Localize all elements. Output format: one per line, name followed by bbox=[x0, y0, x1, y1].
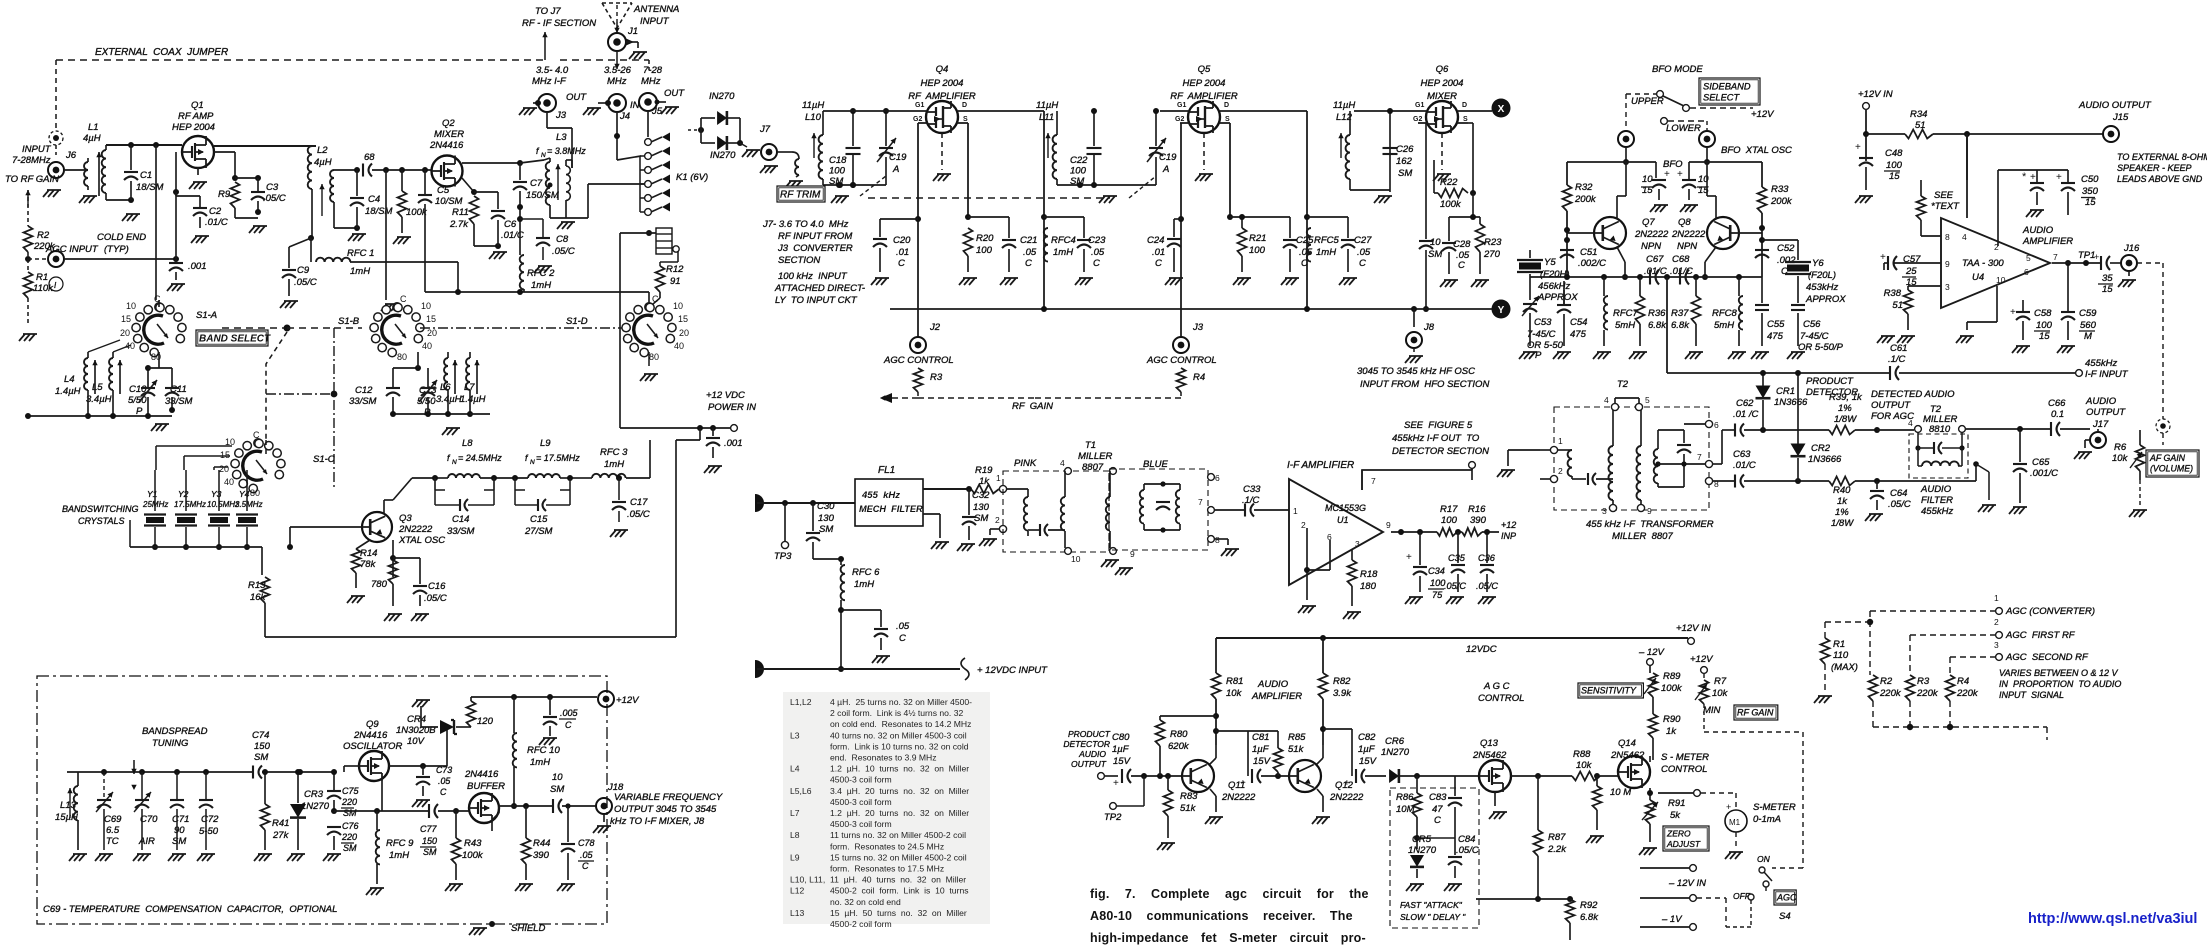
svg-text:1µF: 1µF bbox=[1358, 744, 1376, 755]
svg-text:3: 3 bbox=[1602, 506, 1607, 516]
svg-text:C: C bbox=[565, 720, 572, 730]
svg-text:15: 15 bbox=[678, 314, 688, 324]
svg-text:S: S bbox=[1225, 116, 1230, 123]
svg-text:620k: 620k bbox=[1168, 741, 1190, 752]
svg-text:AGC CONTROL: AGC CONTROL bbox=[883, 355, 954, 366]
svg-text:I-F INPUT: I-F INPUT bbox=[2085, 369, 2129, 380]
svg-text:8810: 8810 bbox=[1929, 424, 1951, 435]
pin7 up to product detector row1 bbox=[1713, 463, 1722, 465]
svg-text:10k: 10k bbox=[1576, 760, 1593, 771]
svg-text:+: + bbox=[1240, 778, 1246, 789]
svg-text:SEE: SEE bbox=[1934, 190, 1954, 201]
svg-text:R92: R92 bbox=[1580, 900, 1598, 911]
dashed gang line bbox=[860, 176, 886, 196]
svg-text:Y: Y bbox=[1498, 305, 1505, 316]
svg-text:.001: .001 bbox=[188, 261, 207, 272]
svg-text:4500-3 coil form: 4500-3 coil form bbox=[830, 797, 892, 807]
svg-text:4500-3 coil form: 4500-3 coil form bbox=[830, 819, 892, 829]
pin 8 wire bbox=[1921, 235, 1941, 237]
secondary pair bbox=[1065, 468, 1072, 475]
svg-text:40: 40 bbox=[422, 341, 432, 351]
svg-text:100k: 100k bbox=[462, 850, 484, 861]
svg-text:.01/C: .01/C bbox=[1733, 460, 1756, 471]
C55 C56 bbox=[1761, 277, 1763, 303]
TAA-300 triangle bbox=[1941, 218, 2050, 308]
svg-text:11µH: 11µH bbox=[1036, 100, 1058, 111]
svg-text:R87: R87 bbox=[1548, 832, 1566, 843]
svg-text:– 1V: – 1V bbox=[1661, 914, 1683, 925]
svg-text:AF GAIN: AF GAIN bbox=[2149, 453, 2186, 463]
svg-text:200k: 200k bbox=[1770, 196, 1793, 207]
svg-text:G1: G1 bbox=[915, 102, 924, 109]
svg-text:SENSITIVITY: SENSITIVITY bbox=[1581, 686, 1637, 696]
dashed circle connector bbox=[49, 131, 63, 145]
svg-text:.001/C: .001/C bbox=[2030, 468, 2058, 479]
svg-text:TAA - 300: TAA - 300 bbox=[1962, 258, 2004, 269]
svg-text:OUT: OUT bbox=[664, 88, 685, 99]
svg-text:1mH: 1mH bbox=[389, 850, 409, 861]
svg-text:+12V IN: +12V IN bbox=[1676, 623, 1711, 634]
svg-text:Q14: Q14 bbox=[1618, 738, 1636, 749]
svg-text:91: 91 bbox=[670, 276, 681, 287]
svg-text:R6: R6 bbox=[2114, 442, 2127, 453]
svg-text:FL1: FL1 bbox=[878, 465, 895, 476]
svg-text:J16: J16 bbox=[2123, 243, 2140, 254]
svg-text:10: 10 bbox=[421, 301, 431, 311]
svg-text:R34: R34 bbox=[1910, 109, 1927, 120]
svg-text:475: 475 bbox=[1767, 331, 1784, 342]
svg-text:TP3: TP3 bbox=[774, 551, 792, 562]
svg-text:TP1: TP1 bbox=[2078, 250, 2095, 261]
svg-text:4: 4 bbox=[1060, 458, 1065, 468]
svg-text:10V: 10V bbox=[407, 736, 426, 747]
svg-text:ON: ON bbox=[1757, 854, 1771, 864]
svg-text:INPUT: INPUT bbox=[640, 16, 670, 27]
pin3 via R18 bbox=[1351, 550, 1353, 560]
svg-text:C77: C77 bbox=[420, 824, 438, 834]
svg-text:8: 8 bbox=[1945, 232, 1950, 242]
svg-text:C: C bbox=[253, 430, 260, 440]
Q8 connections bbox=[1739, 232, 1762, 234]
Y5 crystal bbox=[1519, 263, 1541, 270]
svg-text:C14: C14 bbox=[452, 514, 469, 525]
svg-text:SM: SM bbox=[1398, 168, 1412, 179]
svg-text:68: 68 bbox=[364, 152, 375, 163]
svg-text:100k: 100k bbox=[1440, 199, 1462, 210]
svg-text:7-28MHz: 7-28MHz bbox=[12, 155, 51, 166]
svg-text:+: + bbox=[2056, 172, 2062, 183]
svg-text:4µH: 4µH bbox=[83, 133, 101, 144]
svg-text:100: 100 bbox=[829, 166, 846, 177]
svg-text:APPROX: APPROX bbox=[1805, 294, 1846, 305]
svg-text:C58: C58 bbox=[2034, 308, 2052, 319]
svg-text:11 µH. 40 turns no. 32 o: 11 µH. 40 turns no. 32 on Miller bbox=[830, 875, 966, 885]
svg-text:455kHz: 455kHz bbox=[1921, 506, 1953, 517]
TP2 bbox=[1110, 803, 1117, 810]
svg-text:100: 100 bbox=[976, 245, 993, 256]
svg-text:ATTACHED DIRECT-: ATTACHED DIRECT- bbox=[774, 283, 865, 294]
svg-text:33/SM: 33/SM bbox=[165, 396, 193, 407]
svg-text:6: 6 bbox=[1215, 473, 1220, 483]
svg-text:C15: C15 bbox=[530, 514, 548, 525]
svg-text:VARIES BETWEEN O & 12 V: VARIES BETWEEN O & 12 V bbox=[1999, 668, 2119, 678]
svg-text:C24: C24 bbox=[1147, 235, 1164, 246]
svg-text:L9: L9 bbox=[540, 438, 551, 449]
svg-text:J15: J15 bbox=[2112, 112, 2129, 123]
svg-text:20: 20 bbox=[679, 328, 689, 338]
R43 bbox=[455, 811, 457, 838]
svg-text:CR2: CR2 bbox=[1811, 443, 1831, 454]
svg-text:15 turns no. 32 on Miller 4500: 15 turns no. 32 on Miller 4500-2 coil bbox=[830, 852, 967, 862]
svg-text:RF TRIM: RF TRIM bbox=[780, 190, 821, 201]
.005 cap bbox=[549, 697, 551, 715]
G2 vertical with 10/SM bbox=[1425, 123, 1427, 239]
svg-text:C76: C76 bbox=[342, 821, 359, 831]
svg-text:5: 5 bbox=[1645, 395, 1650, 405]
svg-text:Q7: Q7 bbox=[1642, 217, 1655, 228]
svg-text:27/SM: 27/SM bbox=[524, 526, 553, 537]
svg-text:*: * bbox=[2022, 171, 2027, 183]
svg-text:.05/C: .05/C bbox=[1444, 581, 1466, 591]
svg-text:C: C bbox=[582, 861, 589, 871]
output line with R17 R16 bbox=[1391, 531, 1437, 533]
svg-text:– 12V: – 12V bbox=[1638, 647, 1665, 658]
svg-text:R14: R14 bbox=[360, 548, 377, 559]
svg-text:L1: L1 bbox=[88, 122, 99, 133]
svg-text:5: 5 bbox=[2026, 253, 2031, 263]
svg-text:AMPLIFIER: AMPLIFIER bbox=[2022, 236, 2073, 247]
svg-text:7: 7 bbox=[2053, 252, 2058, 262]
svg-text:SIDEBAND: SIDEBAND bbox=[1703, 81, 1751, 91]
right winding (into BLUE box area) bbox=[1110, 468, 1117, 475]
svg-text:6: 6 bbox=[1714, 420, 1719, 430]
svg-text:2.7k: 2.7k bbox=[449, 219, 469, 230]
svg-text:10k: 10k bbox=[1712, 688, 1729, 699]
svg-text:C: C bbox=[1359, 258, 1366, 269]
svg-text:ANTENNA: ANTENNA bbox=[633, 4, 679, 15]
svg-text:80: 80 bbox=[649, 352, 659, 362]
C20 bbox=[880, 218, 918, 220]
svg-text:.05: .05 bbox=[896, 621, 910, 632]
svg-text:C6: C6 bbox=[504, 219, 517, 230]
svg-text:C9: C9 bbox=[297, 265, 310, 276]
svg-text:G2: G2 bbox=[1413, 116, 1422, 123]
svg-text:C30: C30 bbox=[817, 501, 835, 512]
svg-text:100: 100 bbox=[1886, 160, 1903, 171]
svg-text:TUNING: TUNING bbox=[152, 738, 188, 749]
svg-text:R32: R32 bbox=[1575, 182, 1593, 193]
svg-text:6.8k: 6.8k bbox=[1580, 912, 1599, 923]
svg-text:kHz TO I-F MIXER, J8: kHz TO I-F MIXER, J8 bbox=[610, 816, 705, 827]
svg-text:C: C bbox=[440, 787, 447, 797]
gate rail bbox=[823, 110, 926, 112]
dashed to right with junction bbox=[222, 327, 287, 329]
svg-text:.01/C: .01/C bbox=[1670, 266, 1693, 277]
svg-text:MC1553G: MC1553G bbox=[1325, 503, 1366, 513]
svg-text:100k: 100k bbox=[1661, 683, 1683, 694]
svg-text:C27: C27 bbox=[1354, 235, 1372, 246]
10M pulldown bbox=[1593, 786, 1602, 810]
svg-text:L1,L2: L1,L2 bbox=[790, 697, 812, 707]
svg-text:Y3: Y3 bbox=[211, 489, 222, 499]
capacitor C9 bbox=[289, 238, 311, 247]
svg-text:3: 3 bbox=[1355, 539, 1360, 549]
R2/AGC input/R1 on left bbox=[24, 226, 33, 252]
svg-text:AGC INPUT: AGC INPUT bbox=[45, 244, 99, 255]
svg-text:R38: R38 bbox=[1884, 288, 1902, 299]
svg-text:.01 /C: .01 /C bbox=[1733, 409, 1758, 420]
svg-text:SM: SM bbox=[343, 808, 357, 818]
svg-text:AUDIO: AUDIO bbox=[1078, 749, 1106, 759]
G2 wire down to J2 bbox=[917, 123, 919, 337]
S wire down bbox=[967, 123, 969, 217]
top rail bbox=[67, 771, 253, 773]
svg-text:J1: J1 bbox=[627, 26, 638, 37]
svg-text:15V: 15V bbox=[1113, 756, 1132, 767]
svg-text:R23: R23 bbox=[1484, 237, 1502, 248]
svg-text:MILLER 8807: MILLER 8807 bbox=[1612, 531, 1673, 542]
R44 + C78 bbox=[525, 806, 527, 838]
jacks bbox=[1618, 131, 1634, 147]
svg-text:C17: C17 bbox=[630, 497, 648, 508]
svg-text:6.8k: 6.8k bbox=[1648, 320, 1667, 331]
svg-text:2: 2 bbox=[1301, 520, 1306, 530]
svg-text:L8: L8 bbox=[462, 438, 473, 449]
svg-text:18/SM: 18/SM bbox=[365, 206, 393, 217]
drain wire y=766 bbox=[389, 765, 447, 767]
svg-text:C54: C54 bbox=[1570, 317, 1587, 328]
svg-text:J7- 3.6 TO 4.0 MHz: J7- 3.6 TO 4.0 MHz bbox=[762, 219, 849, 230]
svg-text:SM: SM bbox=[254, 752, 268, 763]
svg-text:C75: C75 bbox=[342, 786, 360, 796]
svg-text:MILLER: MILLER bbox=[1078, 451, 1112, 462]
svg-text:L10, L11,: L10, L11, bbox=[790, 875, 825, 885]
svg-text:R19: R19 bbox=[975, 465, 993, 476]
svg-text:T2: T2 bbox=[1617, 379, 1629, 390]
svg-text:L5: L5 bbox=[92, 382, 103, 393]
svg-text:OUTPUT 3045 TO 3545: OUTPUT 3045 TO 3545 bbox=[614, 804, 717, 815]
R80 bbox=[1156, 720, 1165, 746]
svg-text:AGC SECOND RF: AGC SECOND RF bbox=[2005, 652, 2089, 663]
svg-text:http://www.qsl.net/va3iul: http://www.qsl.net/va3iul bbox=[2028, 911, 2197, 927]
Y bus bbox=[890, 308, 1492, 310]
svg-text:R22: R22 bbox=[1440, 177, 1458, 188]
svg-text:C48: C48 bbox=[1885, 148, 1903, 159]
svg-text:1: 1 bbox=[996, 473, 1001, 483]
capacitor C73 bbox=[422, 766, 424, 775]
svg-text:= 24.5MHz: = 24.5MHz bbox=[458, 453, 502, 463]
svg-text:18/SM: 18/SM bbox=[136, 182, 164, 193]
svg-text:10 M: 10 M bbox=[1610, 787, 1631, 798]
svg-text:C: C bbox=[1155, 258, 1162, 269]
svg-text:+12V IN: +12V IN bbox=[1858, 89, 1893, 100]
svg-text:100 kHz INPUT: 100 kHz INPUT bbox=[778, 271, 848, 282]
svg-text:LY TO INPUT CKT: LY TO INPUT CKT bbox=[775, 295, 858, 306]
svg-text:2N4416: 2N4416 bbox=[429, 140, 464, 151]
svg-text:Q6: Q6 bbox=[1436, 64, 1449, 75]
svg-text:R41: R41 bbox=[272, 818, 289, 829]
svg-text:3.4µH: 3.4µH bbox=[436, 394, 462, 405]
Q14 drain up to SENSITIVITY net & R89/R90 junction bbox=[1649, 756, 1651, 762]
svg-text:+: + bbox=[1880, 252, 1886, 263]
svg-text:AGC: AGC bbox=[1776, 893, 1797, 903]
svg-text:SLOW " DELAY ": SLOW " DELAY " bbox=[1400, 912, 1466, 922]
svg-text:R40: R40 bbox=[1833, 485, 1851, 496]
svg-text:C52: C52 bbox=[1777, 243, 1795, 254]
svg-text:RF AMP: RF AMP bbox=[178, 111, 214, 122]
svg-text:INPUT FROM HFO SECTION: INPUT FROM HFO SECTION bbox=[1360, 379, 1489, 390]
svg-text:1µF: 1µF bbox=[1252, 744, 1270, 755]
pin4 wire up bbox=[1966, 134, 1968, 218]
svg-text:3.5- 4.0: 3.5- 4.0 bbox=[536, 65, 569, 76]
svg-text:+: + bbox=[2030, 172, 2036, 183]
svg-text:+: + bbox=[2010, 307, 2016, 318]
svg-text:L11: L11 bbox=[1039, 112, 1054, 123]
BAND SELECT box bbox=[196, 330, 268, 346]
svg-text:L12: L12 bbox=[790, 886, 805, 896]
svg-text:.005: .005 bbox=[560, 708, 579, 718]
svg-text:SPEAKER - KEEP: SPEAKER - KEEP bbox=[2117, 163, 2192, 173]
svg-text:+12: +12 bbox=[1501, 520, 1516, 530]
svg-text:*TEXT: *TEXT bbox=[1931, 201, 1960, 212]
svg-text:.05: .05 bbox=[438, 776, 450, 786]
svg-text:1mH: 1mH bbox=[604, 459, 624, 470]
left branch down bbox=[1215, 638, 1217, 673]
pins 1,2 + link winding bbox=[1550, 446, 1557, 453]
svg-text:SHIELD: SHIELD bbox=[511, 923, 545, 934]
RFC9 bbox=[376, 830, 380, 864]
svg-text:1.2 µH. 10 turns no. 32: 1.2 µH. 10 turns no. 32 on Miller bbox=[830, 764, 969, 774]
svg-text:D: D bbox=[962, 102, 967, 109]
svg-text:OUT: OUT bbox=[566, 92, 587, 103]
svg-text:1/8W: 1/8W bbox=[1834, 414, 1857, 425]
vertical from Q1 gate-region down to S1-A (x=176 and x=156) bbox=[155, 145, 157, 300]
svg-text:PINK: PINK bbox=[1014, 458, 1037, 469]
svg-text:+: + bbox=[1677, 169, 1683, 180]
svg-text:J8: J8 bbox=[1423, 322, 1435, 333]
svg-text:DETECTED AUDIO: DETECTED AUDIO bbox=[1871, 389, 1955, 400]
svg-text:20: 20 bbox=[427, 328, 437, 338]
svg-text:AGC CONTROL: AGC CONTROL bbox=[1146, 355, 1217, 366]
svg-text:J4: J4 bbox=[619, 111, 630, 122]
svg-text:AGC (CONVERTER): AGC (CONVERTER) bbox=[2005, 606, 2095, 617]
svg-text:10: 10 bbox=[1642, 174, 1653, 185]
svg-text:L5,L6: L5,L6 bbox=[790, 786, 812, 796]
svg-text:RFC 2: RFC 2 bbox=[527, 268, 555, 279]
svg-text:J17: J17 bbox=[2092, 419, 2109, 430]
svg-text:G2: G2 bbox=[1175, 116, 1184, 123]
svg-text:C: C bbox=[1093, 258, 1100, 269]
svg-text:453kHz: 453kHz bbox=[1806, 282, 1838, 293]
svg-text:C12: C12 bbox=[355, 385, 373, 396]
svg-text:.05: .05 bbox=[1023, 247, 1037, 258]
svg-text:1mH: 1mH bbox=[530, 757, 550, 768]
svg-text:no. 32 on cold end: no. 32 on cold end bbox=[830, 897, 901, 907]
D to right bbox=[958, 110, 1044, 112]
relay coil box + R12 bbox=[656, 228, 672, 254]
resistor R11 and capacitor C6 bbox=[470, 196, 479, 224]
svg-text:220k: 220k bbox=[1879, 688, 1902, 699]
J5 stem down to relay contact 1 bbox=[647, 111, 649, 137]
source down to R9/C3 junction... actually wire from right of Q1 down bbox=[234, 152, 236, 178]
svg-text:I-F AMPLIFIER: I-F AMPLIFIER bbox=[1287, 460, 1354, 471]
gate line y=811 bbox=[334, 810, 429, 812]
svg-text:Y6: Y6 bbox=[1812, 258, 1824, 269]
resistor 100k bbox=[401, 170, 403, 191]
Q12 bbox=[1289, 760, 1321, 792]
svg-text:BANDSWITCHING: BANDSWITCHING bbox=[62, 504, 139, 514]
svg-text:RFC 1: RFC 1 bbox=[347, 248, 374, 259]
svg-text:Y2: Y2 bbox=[178, 489, 189, 499]
svg-text:= 3.8MHz: = 3.8MHz bbox=[547, 146, 586, 156]
svg-text:R91: R91 bbox=[1668, 798, 1685, 809]
svg-text:.05/C: .05/C bbox=[1456, 845, 1479, 856]
svg-text:455kHz: 455kHz bbox=[2085, 358, 2117, 369]
svg-text:1.2 µH. 20 turns no. 32: 1.2 µH. 20 turns no. 32 on Miller bbox=[830, 808, 969, 818]
svg-text:S1-C: S1-C bbox=[313, 454, 335, 465]
svg-text:TC: TC bbox=[106, 836, 119, 847]
svg-text:R1: R1 bbox=[36, 272, 48, 283]
R21 + C25 bbox=[1230, 216, 1290, 218]
svg-text:J3: J3 bbox=[555, 110, 567, 121]
svg-text:M1: M1 bbox=[1729, 818, 1741, 827]
svg-text:PRODUCT: PRODUCT bbox=[1806, 376, 1854, 387]
capacitor C7 bbox=[513, 181, 527, 183]
svg-text:RFC 10: RFC 10 bbox=[527, 745, 560, 756]
svg-text:G1: G1 bbox=[1177, 102, 1186, 109]
svg-text:CR6: CR6 bbox=[1385, 736, 1405, 747]
svg-text:R88: R88 bbox=[1573, 749, 1591, 760]
svg-text:10: 10 bbox=[1071, 554, 1081, 564]
SENSITIVITY bbox=[1578, 683, 1643, 698]
svg-text:4: 4 bbox=[1962, 232, 1967, 242]
svg-text:Y4: Y4 bbox=[239, 489, 250, 499]
resistor 780 and capacitor C16 bbox=[392, 540, 394, 577]
svg-text:4500-3 coil form: 4500-3 coil form bbox=[830, 775, 892, 785]
svg-text:A80-10 communications receiv: A80-10 communications receiver. The bbox=[1090, 909, 1353, 923]
svg-text:.05/C: .05/C bbox=[424, 593, 447, 604]
svg-text:1: 1 bbox=[1994, 593, 1999, 603]
svg-text:40 turns no. 32 on Miller 4500: 40 turns no. 32 on Miller 4500-3 coil bbox=[830, 730, 967, 740]
svg-text:+: + bbox=[2094, 252, 2099, 262]
left rail bbox=[1567, 161, 1656, 163]
svg-text:1.4µH: 1.4µH bbox=[55, 386, 81, 397]
svg-text:INPUT: INPUT bbox=[22, 144, 52, 155]
svg-text:(VOLUME): (VOLUME) bbox=[2150, 464, 2193, 474]
svg-text:C: C bbox=[652, 294, 659, 304]
svg-text:L3: L3 bbox=[790, 730, 800, 740]
svg-text:J3 CONVERTER: J3 CONVERTER bbox=[777, 243, 853, 254]
svg-text:RFC5: RFC5 bbox=[1314, 235, 1340, 246]
pins 4,5 bracket bbox=[1611, 403, 1618, 410]
svg-text:1mH: 1mH bbox=[1053, 247, 1073, 258]
svg-text:L8: L8 bbox=[790, 830, 800, 840]
svg-text:on cold end. Resonates to 14.: on cold end. Resonates to 14.2 MHz bbox=[830, 719, 971, 729]
svg-text:MHz: MHz bbox=[607, 76, 627, 87]
svg-text:10k: 10k bbox=[1226, 688, 1243, 699]
svg-text:XTAL OSC: XTAL OSC bbox=[398, 535, 445, 546]
svg-text:CR3: CR3 bbox=[304, 789, 324, 800]
svg-text:C78: C78 bbox=[578, 838, 595, 848]
C28, R23 bbox=[1472, 193, 1474, 217]
source down to line y=811 bbox=[381, 781, 383, 811]
svg-text:J3: J3 bbox=[1192, 322, 1204, 333]
svg-text:456kHz: 456kHz bbox=[1538, 281, 1570, 292]
svg-text:RFC8: RFC8 bbox=[1712, 308, 1738, 319]
svg-text:HEP 2004: HEP 2004 bbox=[921, 78, 964, 89]
svg-text:AUDIO: AUDIO bbox=[2022, 225, 2054, 236]
svg-text:.05/C: .05/C bbox=[1888, 499, 1911, 510]
